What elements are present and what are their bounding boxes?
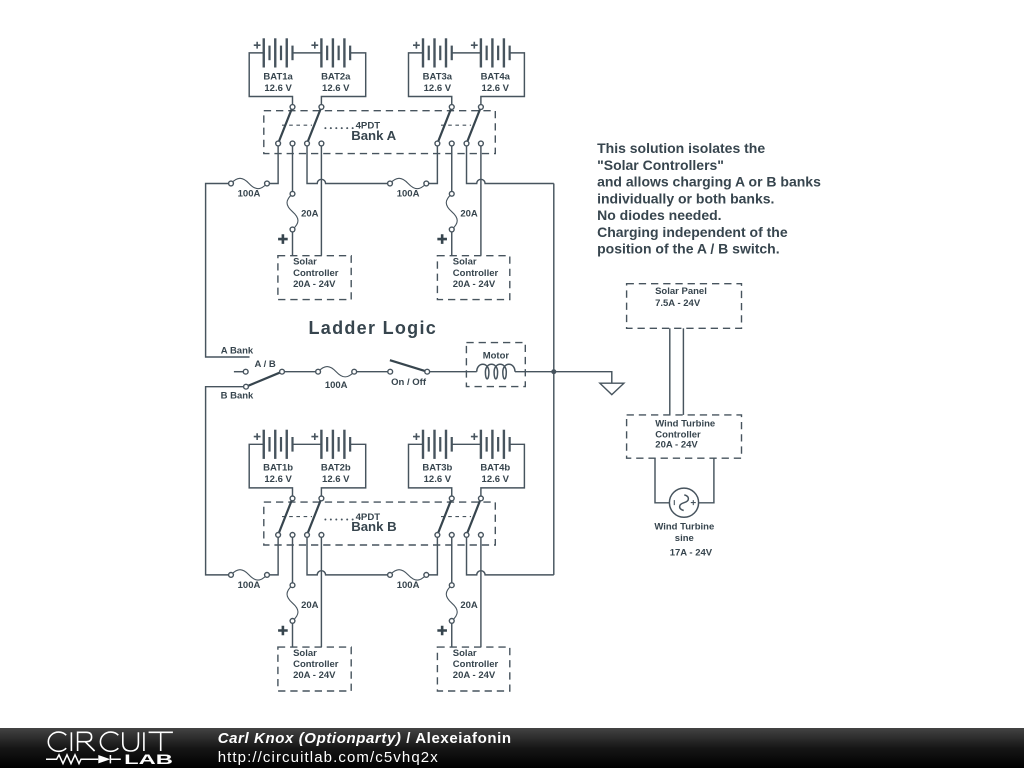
svg-text:12.6 V: 12.6 V bbox=[424, 474, 452, 485]
svg-text:BAT1a: BAT1a bbox=[263, 71, 293, 82]
solar panel SP1 dashed box 7.5A - 24V bbox=[627, 284, 742, 329]
wind turbine controller dashed box 20A - 24V bbox=[627, 415, 742, 458]
svg-text:12.6 V: 12.6 V bbox=[264, 474, 292, 485]
svg-text:Solar: Solar bbox=[293, 648, 317, 659]
terminal fuse F2a 100A bbox=[424, 181, 429, 186]
wire fuse to On/Off switch bbox=[354, 371, 390, 373]
svg-text:This solution isolates the: This solution isolates the bbox=[597, 140, 765, 156]
terminal fuse 20A Bank A bbox=[449, 227, 454, 232]
svg-text:sine: sine bbox=[675, 533, 694, 544]
svg-text:100A: 100A bbox=[325, 380, 348, 391]
wire pole2 right throw to solar controller bbox=[320, 535, 322, 647]
terminal Bank B pole 3 common bbox=[449, 496, 454, 501]
svg-text:100A: 100A bbox=[397, 580, 420, 591]
svg-text:Carl Knox (Optionparty) / Alex: Carl Knox (Optionparty) / Alexeiafonin bbox=[218, 730, 512, 747]
svg-text:Controller: Controller bbox=[293, 659, 339, 670]
wire 20A fuse to solar controller bbox=[292, 621, 294, 647]
linkage dashed line right pair bbox=[441, 516, 471, 518]
terminal fuse 20A Bank B bbox=[290, 619, 295, 624]
terminal Bank A pole 4 throw R bbox=[479, 141, 484, 146]
svg-text:Bank B: Bank B bbox=[351, 519, 396, 534]
svg-text:20A - 24V: 20A - 24V bbox=[293, 279, 336, 290]
terminal fuse 20A Bank A bbox=[290, 227, 295, 232]
svg-text:12.6 V: 12.6 V bbox=[264, 83, 292, 94]
svg-text:A Bank: A Bank bbox=[221, 345, 254, 356]
wire solar panel to wind turbine controller (right) bbox=[682, 328, 684, 415]
terminal Bank B pole 1 common bbox=[290, 496, 295, 501]
svg-text:20A: 20A bbox=[301, 600, 319, 611]
battery BAT2a 12.6 V bbox=[320, 38, 322, 67]
svg-text:12.6 V: 12.6 V bbox=[482, 83, 510, 94]
switch pole 2 of Bank B (lever + terminals) bbox=[307, 498, 321, 535]
terminal fuse 20A Bank B bbox=[290, 583, 295, 588]
switch pole 4 of Bank A (lever + terminals) bbox=[467, 107, 481, 144]
battery BAT4a 12.6 V bbox=[480, 38, 482, 67]
wire A Bank: left bus from top fuse down to A Bank stub bbox=[206, 184, 250, 358]
wire battery bracket BAT1a bbox=[249, 53, 292, 107]
wire controller to wind turbine source (left) bbox=[655, 458, 669, 503]
wire middle fuse to pole3 left throw bbox=[426, 535, 437, 575]
terminal ladder fuse 100A bbox=[316, 369, 321, 374]
wire solar panel to wind turbine controller (left) bbox=[669, 328, 671, 415]
svg-text:Controller: Controller bbox=[453, 268, 499, 279]
terminal Bank A pole 2 throw R bbox=[319, 141, 324, 146]
svg-text:20A - 24V: 20A - 24V bbox=[655, 440, 698, 451]
linkage dashed line right pair bbox=[441, 124, 471, 126]
terminal Bank B pole 2 throw R bbox=[319, 533, 324, 538]
svg-text:BAT2a: BAT2a bbox=[321, 71, 351, 82]
terminal fuse 20A Bank B bbox=[449, 619, 454, 624]
svg-text:20A - 24V: 20A - 24V bbox=[453, 670, 496, 681]
wire battery bracket BAT2b bbox=[321, 444, 365, 498]
switch SW_Bank B 4PDT dashed box bbox=[264, 502, 496, 545]
plus polarity mark bbox=[437, 234, 447, 244]
battery BAT3b 12.6 V bbox=[422, 430, 424, 459]
svg-text:7.5A - 24V: 7.5A - 24V bbox=[655, 298, 701, 309]
svg-text:20A - 24V: 20A - 24V bbox=[453, 279, 496, 290]
wire pole2 left throw to middle 100A fuse (hop over pole2 wire) bbox=[307, 144, 390, 184]
svg-text:20A: 20A bbox=[460, 208, 478, 219]
terminal Bank B pole 1 throw R bbox=[290, 533, 295, 538]
svg-text:20A: 20A bbox=[301, 208, 319, 219]
node junction dot at motor output bbox=[551, 369, 556, 374]
linkage dotted line to label bbox=[324, 127, 326, 129]
wire between BAT1a and BAT2a bbox=[293, 52, 322, 54]
svg-text:100A: 100A bbox=[238, 580, 261, 591]
fuse F1a 100A bbox=[231, 178, 267, 188]
terminal Bank A pole 1 throw R bbox=[290, 141, 295, 146]
ground symbol bbox=[600, 383, 624, 394]
fuse F_ladder 100A bbox=[318, 367, 354, 377]
battery BAT2b 12.6 V bbox=[320, 430, 322, 459]
CircuitLab logo: CIRCUIT letters bbox=[48, 732, 173, 751]
terminal Bank A pole 4 common bbox=[479, 105, 484, 110]
svg-text:No diodes needed.: No diodes needed. bbox=[597, 207, 721, 223]
fuse 20A at x=451.75 bbox=[446, 194, 457, 230]
wire pole1 left throw to 100A fuse bbox=[267, 144, 278, 184]
terminal Bank A pole 1 common bbox=[290, 105, 295, 110]
svg-text:position of the A / B switch.: position of the A / B switch. bbox=[597, 241, 780, 257]
svg-text:A / B: A / B bbox=[255, 359, 276, 370]
inductor coil of motor bbox=[477, 364, 515, 379]
terminal fuse F1a 100A bbox=[229, 181, 234, 186]
CircuitLab logo: resistor + diode line bbox=[46, 755, 98, 764]
fuse F2a 100A bbox=[390, 178, 426, 188]
fuse 20A at x=292.5 bbox=[287, 194, 298, 230]
wire battery bracket BAT3b bbox=[409, 444, 452, 498]
terminal Bank B pole 3 throw R bbox=[449, 533, 454, 538]
wire B Bank: from B throw down left bus to bottom fuse bbox=[206, 387, 246, 575]
linkage dotted line to label bbox=[324, 519, 326, 521]
svg-text:Controller: Controller bbox=[293, 268, 339, 279]
fuse 20A at x=451.75 bbox=[446, 585, 457, 621]
terminal Bank B pole 4 throw L bbox=[464, 533, 469, 538]
svg-text:12.6 V: 12.6 V bbox=[322, 474, 350, 485]
terminal fuse 20A Bank B bbox=[449, 583, 454, 588]
svg-text:Solar: Solar bbox=[453, 257, 477, 268]
terminal Bank B pole 4 common bbox=[479, 496, 484, 501]
switch pole 1 of Bank A (lever + terminals) bbox=[278, 107, 292, 144]
terminal Bank B pole 2 throw L bbox=[305, 533, 310, 538]
wire between BAT3a and BAT4a bbox=[452, 52, 481, 54]
wire pole right throw down to 20A fuse (x=292.5) bbox=[292, 144, 294, 194]
wire pole1 left throw to 100A fuse bbox=[267, 535, 278, 575]
motor M1 dashed box bbox=[466, 343, 525, 387]
svg-text:BAT1b: BAT1b bbox=[263, 463, 293, 474]
terminal Bank B pole 2 common bbox=[319, 496, 324, 501]
switch pole 3 of Bank B (lever + terminals) bbox=[437, 498, 451, 535]
terminal Bank A pole 3 common bbox=[449, 105, 454, 110]
svg-text:100A: 100A bbox=[397, 188, 420, 199]
plus polarity mark bbox=[278, 234, 288, 244]
solar controller 20A - 24V dashed box bbox=[278, 256, 351, 300]
terminal Bank B pole 3 throw L bbox=[435, 533, 440, 538]
svg-text:Solar Panel: Solar Panel bbox=[655, 286, 707, 297]
svg-text:BAT3a: BAT3a bbox=[423, 71, 453, 82]
wire battery bracket BAT4a bbox=[481, 53, 525, 107]
wire motor to right bus junction bbox=[515, 371, 554, 373]
wire pole right throw down to 20A fuse (x=451.75) bbox=[451, 535, 453, 585]
terminal SW_OnOff left bbox=[388, 369, 393, 374]
svg-text:http://circuitlab.com/c5vhq2x: http://circuitlab.com/c5vhq2x bbox=[218, 749, 439, 766]
wire pole2 right throw to solar controller bbox=[320, 144, 322, 256]
plus polarity mark bbox=[278, 626, 288, 636]
terminal fuse F1a 100A bbox=[265, 181, 270, 186]
svg-text:BAT4b: BAT4b bbox=[480, 463, 510, 474]
terminal SW_AB throw A bbox=[243, 369, 248, 374]
terminal Bank A pole 3 throw L bbox=[435, 141, 440, 146]
switch pole 2 of Bank A (lever + terminals) bbox=[307, 107, 321, 144]
svg-text:BAT4a: BAT4a bbox=[481, 71, 511, 82]
svg-text:20A: 20A bbox=[460, 600, 478, 611]
terminal Bank B pole 4 throw R bbox=[479, 533, 484, 538]
svg-text:20A - 24V: 20A - 24V bbox=[293, 670, 336, 681]
terminal fuse F2a 100A bbox=[388, 181, 393, 186]
wire battery bracket BAT4b bbox=[481, 444, 525, 498]
wire pole4 right throw to solar controller bbox=[480, 535, 482, 647]
wire between BAT1b and BAT2b bbox=[293, 443, 322, 445]
terminal fuse F1b 100A bbox=[265, 573, 270, 578]
wire right bus bbox=[553, 184, 555, 575]
svg-text:On / Off: On / Off bbox=[391, 377, 427, 388]
wire 20A fuse to solar controller bbox=[451, 230, 453, 256]
wire 20A fuse to solar controller bbox=[292, 230, 294, 256]
svg-text:"Solar Controllers": "Solar Controllers" bbox=[597, 157, 724, 173]
terminal SW_OnOff right bbox=[425, 369, 430, 374]
battery BAT3a 12.6 V bbox=[422, 38, 424, 67]
svg-text:Motor: Motor bbox=[483, 350, 510, 361]
terminal SW_AB throw B bbox=[244, 384, 249, 389]
terminal Bank B pole 1 throw L bbox=[276, 533, 281, 538]
svg-text:Ladder Logic: Ladder Logic bbox=[308, 318, 437, 338]
wire to ground bbox=[554, 372, 612, 384]
solar controller 20A - 24V dashed box bbox=[437, 256, 509, 300]
terminal fuse 20A Bank A bbox=[449, 191, 454, 196]
wire A/B common to ladder fuse bbox=[282, 371, 318, 373]
wire middle fuse to pole3 left throw bbox=[426, 144, 437, 184]
svg-text:Solar: Solar bbox=[293, 257, 317, 268]
wire pole4 left throw to right bus (hop over pole4 wire) bbox=[467, 144, 554, 184]
svg-text:and allows charging A or B ban: and allows charging A or B banks bbox=[597, 174, 821, 190]
plus polarity mark bbox=[437, 626, 447, 636]
svg-text:individually or both banks.: individually or both banks. bbox=[597, 190, 774, 206]
svg-text:LAB: LAB bbox=[124, 752, 173, 767]
wire battery bracket BAT3a bbox=[409, 53, 452, 107]
wire pole right throw down to 20A fuse (x=292.5) bbox=[292, 535, 294, 585]
fuse F2b 100A bbox=[390, 570, 426, 580]
svg-text:Bank A: Bank A bbox=[351, 128, 396, 143]
battery BAT4b 12.6 V bbox=[480, 430, 482, 459]
linkage dashed line left pair bbox=[282, 516, 312, 518]
terminal SW_AB common bbox=[280, 369, 285, 374]
switch pole 4 of Bank B (lever + terminals) bbox=[467, 498, 481, 535]
switch pole 3 of Bank A (lever + terminals) bbox=[437, 107, 451, 144]
terminal fuse 20A Bank A bbox=[290, 191, 295, 196]
linkage dashed line left pair bbox=[282, 124, 312, 126]
solar controller 20A - 24V dashed box bbox=[278, 647, 351, 691]
battery BAT1a 12.6 V bbox=[263, 38, 265, 67]
svg-text:BAT2b: BAT2b bbox=[321, 463, 351, 474]
terminal Bank A pole 4 throw L bbox=[464, 141, 469, 146]
terminal Bank A pole 3 throw R bbox=[449, 141, 454, 146]
svg-text:12.6 V: 12.6 V bbox=[482, 474, 510, 485]
terminal Bank A pole 2 throw L bbox=[305, 141, 310, 146]
wire controller to wind turbine source (right) bbox=[699, 458, 714, 503]
wire 20A fuse to solar controller bbox=[451, 621, 453, 647]
wire between BAT3b and BAT4b bbox=[452, 443, 481, 445]
fuse F1b 100A bbox=[231, 570, 267, 580]
solar controller 20A - 24V dashed box bbox=[437, 647, 509, 691]
battery BAT1b 12.6 V bbox=[263, 430, 265, 459]
wire switch to motor bbox=[427, 371, 477, 373]
wire pole4 right throw to solar controller bbox=[480, 144, 482, 256]
svg-text:Controller: Controller bbox=[453, 659, 499, 670]
svg-text:Charging independent of the: Charging independent of the bbox=[597, 224, 788, 240]
svg-text:Solar: Solar bbox=[453, 648, 477, 659]
svg-text:BAT3b: BAT3b bbox=[422, 463, 452, 474]
fuse 20A at x=292.5 bbox=[287, 585, 298, 621]
svg-text:12.6 V: 12.6 V bbox=[424, 83, 452, 94]
switch SW_Bank A 4PDT dashed box bbox=[264, 111, 496, 154]
switch SW_OnOff On / Off (open SPST) bbox=[390, 360, 427, 372]
switch pole 1 of Bank B (lever + terminals) bbox=[278, 498, 292, 535]
terminal fuse F1b 100A bbox=[229, 573, 234, 578]
terminal ladder fuse 100A bbox=[352, 369, 357, 374]
source V_wind sine (circle symbol) bbox=[669, 488, 698, 517]
wire pole4 left throw to right bus (hop over pole4 wire) bbox=[467, 535, 554, 575]
terminal Bank A pole 1 throw L bbox=[276, 141, 281, 146]
wire pole2 left throw to middle 100A fuse (hop over pole2 wire) bbox=[307, 535, 390, 575]
svg-text:Wind Turbine: Wind Turbine bbox=[654, 522, 714, 533]
footer black bar bbox=[0, 728, 1024, 768]
terminal Bank A pole 2 common bbox=[319, 105, 324, 110]
svg-text:B Bank: B Bank bbox=[221, 390, 254, 401]
svg-text:Wind Turbine: Wind Turbine bbox=[655, 418, 715, 429]
wire pole right throw down to 20A fuse (x=451.75) bbox=[451, 144, 453, 194]
wire battery bracket BAT1b bbox=[249, 444, 292, 498]
svg-text:17A - 24V: 17A - 24V bbox=[670, 548, 713, 559]
svg-text:100A: 100A bbox=[238, 188, 261, 199]
terminal fuse F2b 100A bbox=[388, 573, 393, 578]
terminal fuse F2b 100A bbox=[424, 573, 429, 578]
switch SW_AB A / B (SPDT) bbox=[234, 371, 243, 373]
svg-text:12.6 V: 12.6 V bbox=[322, 83, 350, 94]
wire battery bracket BAT2a bbox=[321, 53, 365, 107]
